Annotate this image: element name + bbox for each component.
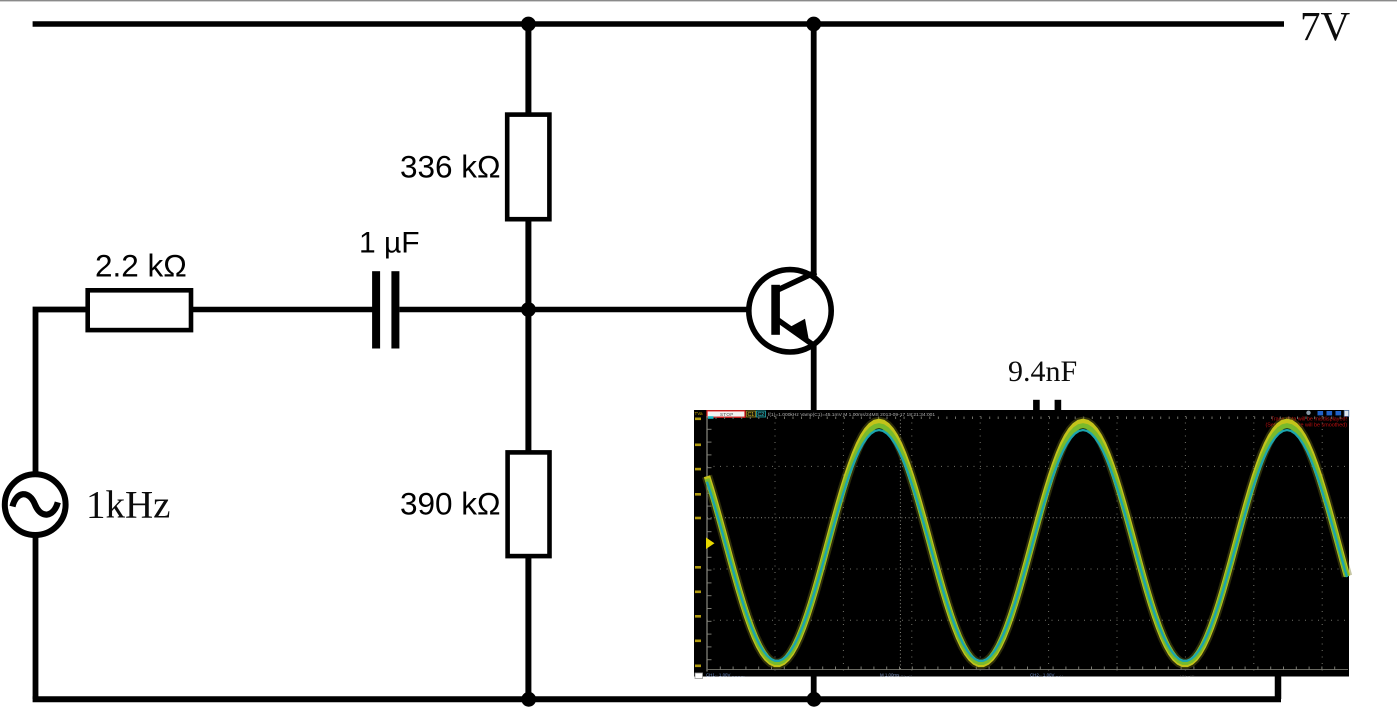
resistor 390 k&#937; [508, 452, 550, 556]
resistor 336 k&#937; [507, 115, 549, 220]
svg-text:STOP: STOP [720, 412, 734, 417]
top page border hairline [0, 0, 1397, 1]
wire: resistor to 1uF capacitor [191, 307, 373, 312]
transistor Q1 collector stroke [777, 272, 817, 291]
capacitor C 1uF plate right [391, 271, 399, 348]
svg-text:9.4nF: 9.4nF [1008, 355, 1077, 388]
resistor 2.2 k&#937; [88, 290, 191, 330]
wire: ground bottom rail [33, 696, 1281, 702]
scope: top-right window icons [1306, 411, 1310, 415]
wire: 336k top lead from rail [525, 24, 531, 116]
scope: graticule frame lines [706, 416, 708, 672]
scope: graticule grid [774, 416, 776, 671]
wire: emitter branch to 9.4nF (hidden behind scope) [814, 434, 1033, 439]
scope: window background [694, 410, 1349, 677]
scope: trace CH2 cyan [707, 430, 1347, 661]
scope: trace CH1 yellow [707, 422, 1347, 664]
svg-text:CH2·· 1.00V …··: CH2·· 1.00V …·· [1030, 673, 1063, 678]
node: junction dot top rail / 336k [521, 17, 536, 32]
scope: C1 badge [747, 411, 756, 417]
capacitor 9.4nF plate left [1033, 400, 1040, 476]
scope: left label column marks [695, 418, 701, 421]
scope: bottom measurement strip marks [695, 673, 703, 679]
svg-text:CH1·· 1.00V ………: CH1·· 1.00V ……… [706, 673, 745, 678]
transistor Q1 circle [749, 270, 831, 352]
capacitor C 1uF plate left [372, 271, 380, 348]
scope: trace blend green [707, 426, 1347, 663]
svg-text:····…···: ····…··· [1180, 673, 1195, 678]
AC source V1 1kHz circle [5, 474, 66, 535]
svg-text:TVa: TVa [695, 411, 704, 416]
svg-text:C1: C1 [748, 412, 755, 418]
wire: capacitor to base node to transistor base [399, 307, 773, 312]
wire: 7V top supply rail [33, 21, 1284, 27]
capacitor 9.4nF plate right [1055, 400, 1062, 476]
scope: C2 badge [757, 411, 766, 417]
svg-text:2.2 kΩ: 2.2 kΩ [95, 248, 187, 284]
oscilloscope screenshot window [694, 410, 1349, 679]
scope: STOP box [707, 411, 745, 417]
transistor Q1 emitter wire down to rail (passes behind scope) [811, 345, 817, 699]
svg-text:390 kΩ: 390 kΩ [400, 486, 501, 522]
svg-text:7V: 7V [1300, 3, 1351, 49]
wire: source bottom to ground rail [33, 534, 39, 699]
transistor Q1 collector wire from rail [811, 24, 817, 276]
wire: between 336k and mid node and 390k [525, 219, 531, 453]
svg-text:1kHz: 1kHz [86, 484, 170, 527]
node: junction dot ground / emitter branch [807, 692, 822, 707]
node: junction dot mid (divider / base) [521, 302, 536, 317]
wire: right vertical drop to ground rail [1275, 437, 1282, 699]
AC source sine symbol [13, 494, 58, 514]
scope: trace halo [707, 422, 1347, 664]
scope: yellow channel arrow [706, 538, 715, 550]
transistor Q1 emitter stroke [777, 319, 815, 346]
wire: 9.4nF to right drop (hidden) [1061, 434, 1278, 439]
node: junction dot ground / 390k [521, 692, 536, 707]
wire: input left vertical (source top) [36, 310, 89, 472]
scope: cyan trigger marker [708, 416, 714, 419]
svg-text:1 µF: 1 µF [359, 227, 420, 260]
transistor Q1 base bar [771, 285, 780, 335]
node: junction dot top rail / collector [806, 17, 821, 32]
svg-text:M 1.00ms ···…··: M 1.00ms ···…·· [880, 673, 912, 678]
transistor Q1 emitter arrow (PNP) [790, 319, 809, 339]
wire: 390k bottom lead to ground rail [525, 555, 531, 699]
svg-text:336 kΩ: 336 kΩ [400, 149, 501, 185]
